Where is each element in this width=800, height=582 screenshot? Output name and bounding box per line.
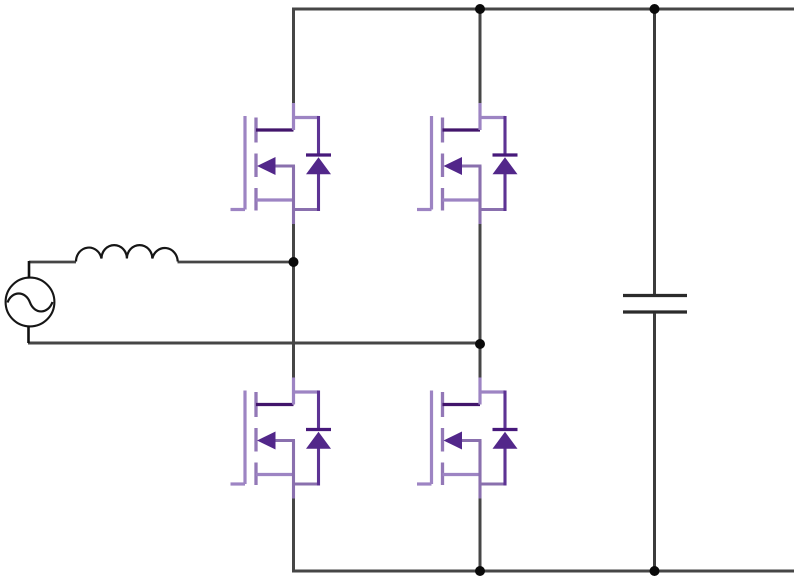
- Q2 body diode triangle: [493, 157, 518, 174]
- Q2 source vertical: [478, 166, 481, 224]
- Q1 body diode anode lead: [317, 174, 320, 211]
- Q1 drain contact: [256, 128, 294, 131]
- Q3 source contact line: [273, 439, 295, 442]
- capacitor C1 top plate: [623, 294, 687, 297]
- junction dot: node B (AC return to right leg): [475, 339, 485, 349]
- Q4 source contact line: [460, 439, 482, 442]
- Q1 channel dashes: [254, 118, 257, 211]
- Q2 body diode cathode bar: [493, 153, 518, 156]
- Q1 source contact line: [273, 164, 295, 167]
- Q4 body diode triangle: [493, 432, 518, 449]
- Q4 body/source lower contact: [443, 473, 481, 476]
- Q3 body diode triangle: [306, 432, 331, 449]
- MOSFET Q4 with body diode (bottom-right): [417, 378, 518, 499]
- Q2 body/source lower contact: [443, 198, 481, 201]
- MOSFET Q1 with body diode (top-left): [231, 103, 332, 224]
- Q4 channel dashes: [441, 392, 444, 485]
- capacitor C1 bottom lead: [653, 313, 656, 571]
- MOSFET Q3 with body diode (bottom-left): [231, 378, 332, 499]
- Q3 body diode anode lead: [317, 449, 320, 486]
- Q4 body arrow: [444, 432, 463, 450]
- AC source V1 sine wave: [8, 294, 53, 312]
- AC source V1 top terminal stub: [28, 261, 31, 278]
- Q2 body diode cathode lead: [503, 116, 506, 155]
- Q2 drain vertical: [478, 103, 481, 130]
- wire: bottom DC- rail: [292, 570, 794, 573]
- wire: right leg lower (Q4 source to bottom rail): [479, 497, 482, 571]
- Q1 top link to diode: [292, 116, 319, 119]
- Q2 source contact line: [460, 164, 482, 167]
- wire: left leg lower (Q3 source to bottom rail): [292, 497, 295, 571]
- Q4 bottom link to diode: [479, 482, 506, 485]
- Q3 gate plate: [243, 391, 246, 485]
- wire: inductor to node A: [178, 261, 294, 264]
- junction dot: bottom rail / capacitor leg: [650, 566, 660, 576]
- wire: left leg upper (rail to Q1 drain): [292, 8, 295, 106]
- Q1 source vertical: [292, 166, 295, 224]
- Q1 gate plate: [243, 116, 246, 210]
- Q3 body arrow: [257, 432, 276, 450]
- Q4 drain contact: [443, 403, 481, 406]
- wire: left leg middle (Q1 source to Q3 drain through node A): [292, 222, 295, 378]
- Q3 body diode cathode lead: [317, 391, 320, 430]
- Q1 body arrow: [257, 157, 276, 175]
- Q2 body arrow: [444, 157, 463, 175]
- wire: right leg middle (Q2 source to Q4 drain through node B): [479, 222, 482, 378]
- inductor L1: [76, 245, 178, 261]
- Q2 top link to diode: [479, 116, 506, 119]
- AC source V1 circle: [6, 278, 55, 327]
- junction dot: top rail / capacitor leg: [650, 4, 660, 14]
- junction dot: node A (inductor to left leg): [289, 257, 299, 267]
- wire: right leg upper (rail to Q2 drain): [479, 8, 482, 106]
- Q4 top link to diode: [479, 390, 506, 393]
- Q4 body diode cathode bar: [493, 428, 518, 431]
- junction dot: top rail / right leg: [475, 4, 485, 14]
- Q3 top link to diode: [292, 390, 319, 393]
- Q4 gate plate: [430, 391, 433, 485]
- Q1 body diode cathode bar: [306, 153, 331, 156]
- Q3 drain contact: [256, 403, 294, 406]
- Q3 drain vertical: [292, 378, 295, 405]
- capacitor C1 top lead: [653, 8, 656, 295]
- wire: top DC+ rail: [292, 8, 794, 11]
- Q2 gate lead: [417, 208, 432, 211]
- Q2 channel dashes: [441, 118, 444, 211]
- Q3 channel dashes: [254, 392, 257, 485]
- Q4 body diode anode lead: [503, 449, 506, 486]
- Q3 gate lead: [231, 482, 246, 485]
- Q2 body diode anode lead: [503, 174, 506, 211]
- Q3 bottom link to diode: [292, 482, 319, 485]
- Q1 bottom link to diode: [292, 208, 319, 211]
- Q1 drain vertical: [292, 103, 295, 130]
- Q3 body diode cathode bar: [306, 428, 331, 431]
- wire: AC live from source to inductor: [29, 261, 76, 264]
- Q1 gate lead: [231, 208, 246, 211]
- Q4 source vertical: [478, 441, 481, 499]
- Q2 bottom link to diode: [479, 208, 506, 211]
- Q1 body diode triangle: [306, 157, 331, 174]
- AC source V1 bottom terminal stub: [27, 326, 30, 343]
- Q2 gate plate: [430, 116, 433, 210]
- Q1 body/source lower contact: [256, 198, 294, 201]
- wire: AC neutral return to node B: [28, 342, 480, 345]
- Q4 gate lead: [417, 482, 432, 485]
- junction dot: bottom rail / right leg: [475, 566, 485, 576]
- Q4 body diode cathode lead: [503, 391, 506, 430]
- Q4 drain vertical: [478, 378, 481, 405]
- capacitor C1 bottom plate: [623, 310, 687, 313]
- Q3 source vertical: [292, 441, 295, 499]
- Q2 drain contact: [443, 128, 481, 131]
- Q1 body diode cathode lead: [317, 116, 320, 155]
- MOSFET Q2 with body diode (top-right): [417, 103, 518, 224]
- Q3 body/source lower contact: [256, 473, 294, 476]
